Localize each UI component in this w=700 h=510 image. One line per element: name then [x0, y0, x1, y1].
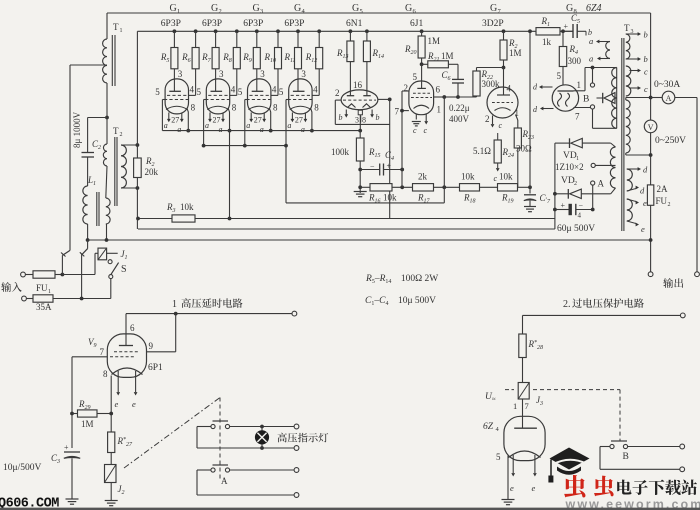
- svg-text:10k: 10k: [383, 193, 397, 203]
- wire V2 cathode drop: [228, 108, 229, 130]
- svg-text:5: 5: [360, 8, 363, 15]
- terminal A bottom: [294, 493, 299, 498]
- T2 secondary winding: [121, 145, 126, 188]
- resistor R17 2k: [413, 184, 434, 191]
- svg-text:6Z: 6Z: [483, 422, 494, 432]
- svg-text:1: 1: [437, 105, 442, 115]
- svg-text:1: 1: [172, 299, 177, 310]
- wire rail to R19: [528, 29, 532, 33]
- svg-text:300: 300: [568, 56, 582, 66]
- svg-text:16: 16: [353, 80, 363, 90]
- node T2 bottom: [136, 186, 140, 190]
- svg-text:R1: R1: [541, 16, 551, 28]
- svg-text:+: +: [387, 162, 392, 171]
- tube V2 grid pin 4: [208, 94, 228, 96]
- watermark chongchong: [564, 475, 585, 498]
- resistor R21 1M: [422, 63, 428, 65]
- tube V3 grid pin 5: [246, 99, 270, 101]
- transformer T1: [106, 13, 108, 39]
- relay contact B2: [611, 440, 627, 442]
- svg-text:G: G: [253, 3, 260, 14]
- svg-text:VD: VD: [561, 176, 575, 186]
- wire V5 grid drop to bus: [389, 99, 391, 218]
- svg-text:R15: R15: [368, 147, 381, 159]
- svg-text:7: 7: [100, 347, 105, 357]
- transformer T3 HV secondary: [626, 100, 630, 153]
- transformer T3 winding a: [606, 42, 610, 59]
- wire contact B bottom: [593, 127, 617, 129]
- transformer T3 primary: [612, 68, 617, 129]
- svg-text:R14: R14: [372, 48, 385, 60]
- svg-text:2: 2: [668, 202, 671, 208]
- svg-text:8: 8: [574, 8, 577, 15]
- transformer T3 winding c: [626, 66, 631, 96]
- transformer T3 winding b: [626, 34, 630, 59]
- tube V8 heater taps d: [542, 86, 553, 88]
- svg-text:8: 8: [314, 103, 319, 113]
- resistor R28: [522, 315, 524, 334]
- svg-text:7: 7: [525, 401, 529, 411]
- svg-text:1M: 1M: [428, 36, 441, 46]
- svg-text:a: a: [301, 125, 305, 134]
- relay coil J1: [98, 248, 107, 260]
- fuse FU2 2A: [647, 185, 653, 205]
- tube V8 envelope: [552, 85, 578, 111]
- wire V9 cathode drop: [110, 376, 112, 433]
- wire VD left column: [554, 143, 556, 229]
- wire V4 grid drop: [285, 100, 287, 146]
- svg-text:2k: 2k: [418, 172, 428, 182]
- svg-text:c: c: [494, 174, 498, 183]
- svg-text:6: 6: [413, 8, 417, 15]
- svg-text:6P3P: 6P3P: [243, 19, 263, 29]
- svg-text:C,7: C,7: [540, 193, 552, 205]
- tube V7 heater lead: [492, 116, 494, 125]
- svg-text:R23: R23: [522, 129, 535, 141]
- svg-text:3: 3: [260, 8, 263, 15]
- svg-text:a: a: [205, 121, 209, 130]
- tube V3 cathode: [248, 106, 270, 109]
- tube V4 anode pin 3: [297, 69, 299, 92]
- svg-text:T: T: [113, 22, 119, 32]
- svg-text:4: 4: [578, 212, 582, 220]
- label output: [663, 278, 683, 288]
- svg-text:R6: R6: [181, 52, 191, 64]
- resistor R14: [365, 29, 369, 33]
- tube V6 grids: [413, 92, 430, 94]
- svg-text:6N1: 6N1: [346, 19, 363, 29]
- svg-text:2.: 2.: [563, 299, 571, 310]
- svg-text:0~250V: 0~250V: [655, 136, 686, 146]
- resistor R29 1M: [70, 412, 74, 416]
- resistor R11 anode: [296, 29, 300, 33]
- ground R15: [358, 185, 362, 189]
- svg-text:C2: C2: [92, 139, 101, 151]
- wire C2 branch: [88, 117, 107, 119]
- wire 6J1 out drop: [443, 97, 445, 203]
- svg-text:6P3P: 6P3P: [161, 19, 181, 29]
- svg-text:10k: 10k: [499, 172, 513, 182]
- svg-text:e: e: [510, 483, 514, 493]
- tube V7 cathode: [495, 108, 511, 111]
- wire T2-L1 center column: [106, 118, 108, 145]
- svg-text:4: 4: [190, 85, 195, 95]
- winding VD supply: [610, 147, 615, 188]
- tube V10 cathode dome: [509, 451, 541, 458]
- node output bus: [649, 238, 653, 242]
- svg-text:1: 1: [513, 401, 517, 411]
- tube V3 heater pins 2 7: [250, 113, 252, 120]
- svg-text:+: +: [564, 22, 569, 31]
- svg-text:R8: R8: [222, 52, 232, 64]
- svg-text:e: e: [132, 399, 136, 409]
- wire T1 tap to left column: [70, 64, 107, 66]
- resistor R15 100k: [359, 131, 361, 138]
- svg-text:T: T: [624, 23, 630, 33]
- wire V9 left column: [71, 357, 73, 448]
- svg-text:1k: 1k: [542, 37, 552, 47]
- wire V3 grid drop: [244, 100, 246, 146]
- diode damper: [597, 97, 603, 99]
- tube V1 cathode: [166, 106, 188, 109]
- svg-text:0.22μ: 0.22μ: [449, 103, 470, 113]
- switch contact J1-b: [86, 238, 90, 242]
- svg-text:1M: 1M: [81, 419, 94, 429]
- svg-text:B: B: [583, 95, 589, 105]
- resistor R22 300k: [477, 67, 504, 69]
- svg-text:T: T: [113, 126, 119, 136]
- tube V1 anode pin 3: [173, 69, 175, 92]
- wire R21 to C6: [448, 63, 458, 65]
- wire contact A right: [230, 469, 296, 471]
- svg-text:G: G: [170, 3, 177, 14]
- svg-text:10μ/500V: 10μ/500V: [3, 463, 41, 473]
- svg-text:VD: VD: [563, 151, 577, 161]
- diode VD2: [555, 193, 568, 195]
- svg-text:a: a: [177, 125, 181, 134]
- wire contact B loop: [600, 446, 610, 448]
- node VD2: [553, 192, 557, 196]
- label indicator lamp: [278, 433, 329, 443]
- svg-text:V9: V9: [88, 337, 97, 349]
- svg-text:8: 8: [273, 103, 278, 113]
- svg-text:c: c: [644, 84, 648, 94]
- wire delay top: [126, 313, 294, 315]
- resistor R9 anode: [255, 29, 259, 33]
- tube V3 anode pin 3: [256, 69, 258, 92]
- svg-text:7: 7: [498, 8, 502, 15]
- svg-text:A: A: [666, 94, 672, 103]
- tube V9 grid pin 7: [110, 356, 136, 358]
- tube V6 plate wire: [434, 96, 445, 98]
- resistor R24 5.1: [497, 133, 499, 140]
- svg-text:10k: 10k: [461, 172, 475, 182]
- svg-text:R3: R3: [166, 202, 176, 214]
- svg-text:1: 1: [120, 28, 123, 34]
- resistor R16 10k: [360, 186, 370, 188]
- tube V9 heater: [117, 371, 119, 392]
- fuse FU1: [25, 274, 33, 276]
- tube V10 anode: [514, 427, 537, 429]
- resistor R1 1k: [536, 28, 560, 35]
- svg-text:5: 5: [155, 87, 160, 97]
- tube V3 6P3P envelope: [248, 79, 271, 114]
- wire V3 cathode drop: [269, 108, 270, 130]
- svg-text:8: 8: [103, 369, 108, 379]
- tube V9 grid pin 9: [114, 351, 140, 353]
- resistor R12 screen: [317, 29, 321, 33]
- svg-text:1M: 1M: [441, 51, 454, 61]
- tube V8 pin 7 wire: [574, 107, 591, 109]
- node HV bottom: [649, 153, 653, 157]
- svg-text:e: e: [641, 224, 645, 234]
- tube V10 heater: [512, 455, 514, 473]
- resistor R27: [108, 432, 115, 453]
- resistor R5 anode: [173, 29, 177, 33]
- svg-text:6: 6: [130, 323, 135, 333]
- relay contact upper: [213, 420, 229, 422]
- wire bus middle: [138, 228, 555, 230]
- svg-text:400V: 400V: [449, 114, 470, 124]
- tube V6 grid pin 5: [421, 64, 423, 88]
- svg-text:d: d: [533, 83, 538, 92]
- terminal output right: [695, 272, 700, 277]
- tube V10 pins 1 7: [522, 399, 524, 428]
- svg-text:G: G: [211, 3, 218, 14]
- relay contact A: [213, 464, 229, 466]
- svg-text:100k: 100k: [331, 147, 350, 157]
- svg-text:27: 27: [171, 116, 179, 125]
- svg-text:a: a: [260, 125, 264, 134]
- terminal lamp top: [294, 424, 299, 429]
- svg-text:6: 6: [436, 85, 441, 95]
- svg-text:2: 2: [219, 8, 222, 15]
- tube V6 6J1 envelope: [409, 81, 434, 115]
- wire contact A loop: [197, 469, 211, 471]
- terminal delay: [292, 311, 297, 316]
- svg-text:9: 9: [149, 341, 154, 351]
- svg-text:10k: 10k: [180, 202, 194, 212]
- wire V2 grid drop: [203, 100, 205, 146]
- svg-text:35A: 35A: [36, 302, 52, 312]
- svg-text:C1–C4 10μ 500V: C1–C4 10μ 500V: [365, 296, 436, 307]
- tube V8 pin 1 wire: [574, 90, 586, 92]
- svg-text:R20: R20: [404, 44, 417, 56]
- wire grid bus: [204, 145, 286, 147]
- resistor R2 20k: [136, 31, 138, 158]
- tube V4 grid pin 5: [288, 99, 312, 101]
- wire lamp top: [230, 426, 296, 428]
- svg-text:4: 4: [231, 85, 236, 95]
- svg-text:8: 8: [191, 103, 196, 113]
- svg-text:A: A: [598, 179, 605, 189]
- tube V10 6Z4 envelope: [504, 416, 545, 460]
- terminal output left: [648, 272, 653, 277]
- node pin1 contact B: [591, 66, 595, 70]
- wire V1 grid drop: [161, 100, 163, 131]
- watermark site name: [617, 480, 697, 495]
- svg-text:R4: R4: [569, 44, 579, 56]
- resistor R18 10k: [460, 184, 480, 191]
- wire heater bus a: [162, 130, 360, 132]
- svg-text:B: B: [623, 452, 629, 462]
- svg-text:5: 5: [496, 452, 501, 462]
- terminal A right: [294, 468, 299, 473]
- node T1 bottom junction: [105, 116, 109, 120]
- svg-text:R29: R29: [78, 399, 91, 411]
- ground J2: [110, 483, 112, 501]
- svg-text:R5–R14 100Ω 2W: R5–R14 100Ω 2W: [365, 274, 438, 285]
- tube V8 filament: [558, 93, 562, 107]
- node R16 R17: [400, 185, 404, 189]
- resistor R23 30: [516, 115, 518, 121]
- svg-text:b: b: [644, 54, 648, 64]
- svg-text:2: 2: [335, 88, 340, 98]
- svg-text:L1: L1: [87, 175, 96, 187]
- svg-text:d: d: [533, 105, 538, 114]
- wire lamp loop: [197, 426, 211, 428]
- svg-text:c: c: [413, 126, 417, 135]
- svg-text:J3: J3: [536, 395, 543, 407]
- transformer T3 core: [621, 38, 623, 231]
- wire V5 grid right: [378, 98, 390, 100]
- switch contact J1-a: [61, 273, 65, 277]
- voltmeter 0-250V: [644, 120, 657, 133]
- node R20 R21: [420, 62, 424, 66]
- terminal lamp bottom: [294, 446, 299, 451]
- watermark logo cap: [548, 448, 589, 483]
- relay contact B: [592, 68, 594, 83]
- scan edge: [0, 508, 700, 510]
- svg-text:G: G: [566, 3, 573, 14]
- svg-text:3: 3: [355, 116, 359, 125]
- wire cathode to bus1: [229, 131, 231, 219]
- svg-text:8μ 1000V: 8μ 1000V: [72, 111, 82, 148]
- capacitor C7: [529, 187, 531, 193]
- svg-text:6P3P: 6P3P: [202, 19, 222, 29]
- tube V7 grids: [492, 102, 513, 104]
- capacitor C6 0.22u 400V: [452, 78, 464, 80]
- capacitor C2 8u 1000V: [82, 152, 95, 154]
- svg-text:C6: C6: [442, 70, 451, 82]
- svg-text:G: G: [294, 3, 301, 14]
- svg-text:U≈: U≈: [485, 392, 496, 403]
- wire screen rail: [137, 30, 536, 32]
- capacitor C4: [358, 168, 362, 172]
- node R19 C7: [528, 185, 532, 189]
- svg-text:4: 4: [272, 85, 277, 95]
- svg-text:a: a: [219, 125, 223, 134]
- svg-text:G: G: [490, 3, 497, 14]
- node R1 C5: [561, 29, 565, 33]
- wire divider link: [286, 202, 444, 204]
- svg-text:1: 1: [577, 80, 582, 90]
- wire L1 left to bus: [87, 224, 89, 240]
- svg-text:4: 4: [507, 84, 512, 94]
- svg-text:5: 5: [197, 87, 202, 97]
- ammeter 0-30A: [651, 97, 663, 99]
- svg-text:6Z4: 6Z4: [586, 3, 602, 14]
- wire contact B right: [628, 446, 680, 448]
- svg-text:1: 1: [177, 8, 180, 15]
- tube V6 cathode: [414, 105, 430, 108]
- svg-text:5: 5: [557, 71, 562, 81]
- svg-text:FU: FU: [36, 283, 48, 293]
- svg-text:1: 1: [48, 289, 51, 295]
- terminal input upper: [21, 272, 26, 277]
- node ammeter junction: [649, 96, 653, 100]
- svg-text:b: b: [339, 113, 343, 122]
- node cathode R15: [358, 129, 362, 133]
- diode VD1: [555, 142, 570, 144]
- tube V5 cathode lead 3|8: [358, 110, 362, 115]
- svg-text:30Ω: 30Ω: [516, 144, 532, 154]
- svg-text:c: c: [644, 67, 648, 77]
- svg-text:a: a: [287, 121, 291, 130]
- svg-text:1M: 1M: [509, 48, 522, 58]
- svg-text:e: e: [643, 198, 647, 208]
- tube V4 grid pin 4: [291, 94, 311, 96]
- tube V9 cathode dome: [112, 368, 143, 375]
- svg-text:4: 4: [302, 8, 306, 15]
- svg-text:+: +: [561, 201, 566, 210]
- svg-text:6P1: 6P1: [148, 363, 163, 373]
- svg-text:7: 7: [395, 107, 400, 117]
- svg-text:R11: R11: [284, 52, 296, 64]
- wire bus R3: [138, 218, 172, 220]
- svg-text:FU: FU: [656, 196, 668, 206]
- tube V1 6P3P envelope: [165, 79, 188, 114]
- terminal B bottom: [680, 467, 685, 472]
- wire V10 cathode ground: [507, 456, 509, 500]
- svg-text:2A: 2A: [657, 184, 669, 194]
- inductor L1: [83, 186, 88, 224]
- svg-text:S: S: [121, 264, 127, 275]
- svg-text:R7: R7: [201, 52, 212, 64]
- svg-text:d: d: [643, 165, 648, 175]
- transformer T3 winding e: [627, 199, 633, 221]
- svg-text:a: a: [589, 54, 593, 64]
- svg-text:V: V: [648, 123, 654, 132]
- terminal B right: [680, 444, 685, 449]
- svg-text:b: b: [644, 30, 648, 40]
- resistor R6 screen: [194, 29, 198, 33]
- tube V2 anode pin 3: [215, 69, 217, 92]
- svg-text:−: −: [370, 162, 375, 171]
- tube V3 grid pin 4: [249, 94, 269, 96]
- svg-text:1Z10×2: 1Z10×2: [555, 162, 584, 172]
- wire bus bottom: [88, 239, 651, 241]
- node R17 R18: [442, 185, 446, 189]
- wire V5 grid box: [335, 99, 341, 101]
- tube V5 heater pins: [345, 110, 347, 115]
- svg-text:2: 2: [485, 114, 490, 124]
- svg-text:2: 2: [120, 132, 123, 138]
- wire rail to C5: [560, 30, 573, 32]
- tube V2 heater pins 2 7: [209, 113, 211, 120]
- center tap circle: [591, 163, 595, 167]
- dash link J2 to contacts: [124, 398, 220, 469]
- tube V7 grid pin 4: [503, 68, 505, 96]
- svg-text:27: 27: [254, 116, 262, 125]
- wire top B+ rail: [107, 12, 651, 14]
- tube V1 heater pins 2 7: [168, 113, 170, 120]
- relay coil J2: [110, 453, 112, 465]
- wire HT right drop: [650, 13, 652, 120]
- svg-text:5.1Ω: 5.1Ω: [473, 146, 491, 156]
- dash link J3: [505, 389, 514, 391]
- tube V6 left pins: [402, 90, 409, 92]
